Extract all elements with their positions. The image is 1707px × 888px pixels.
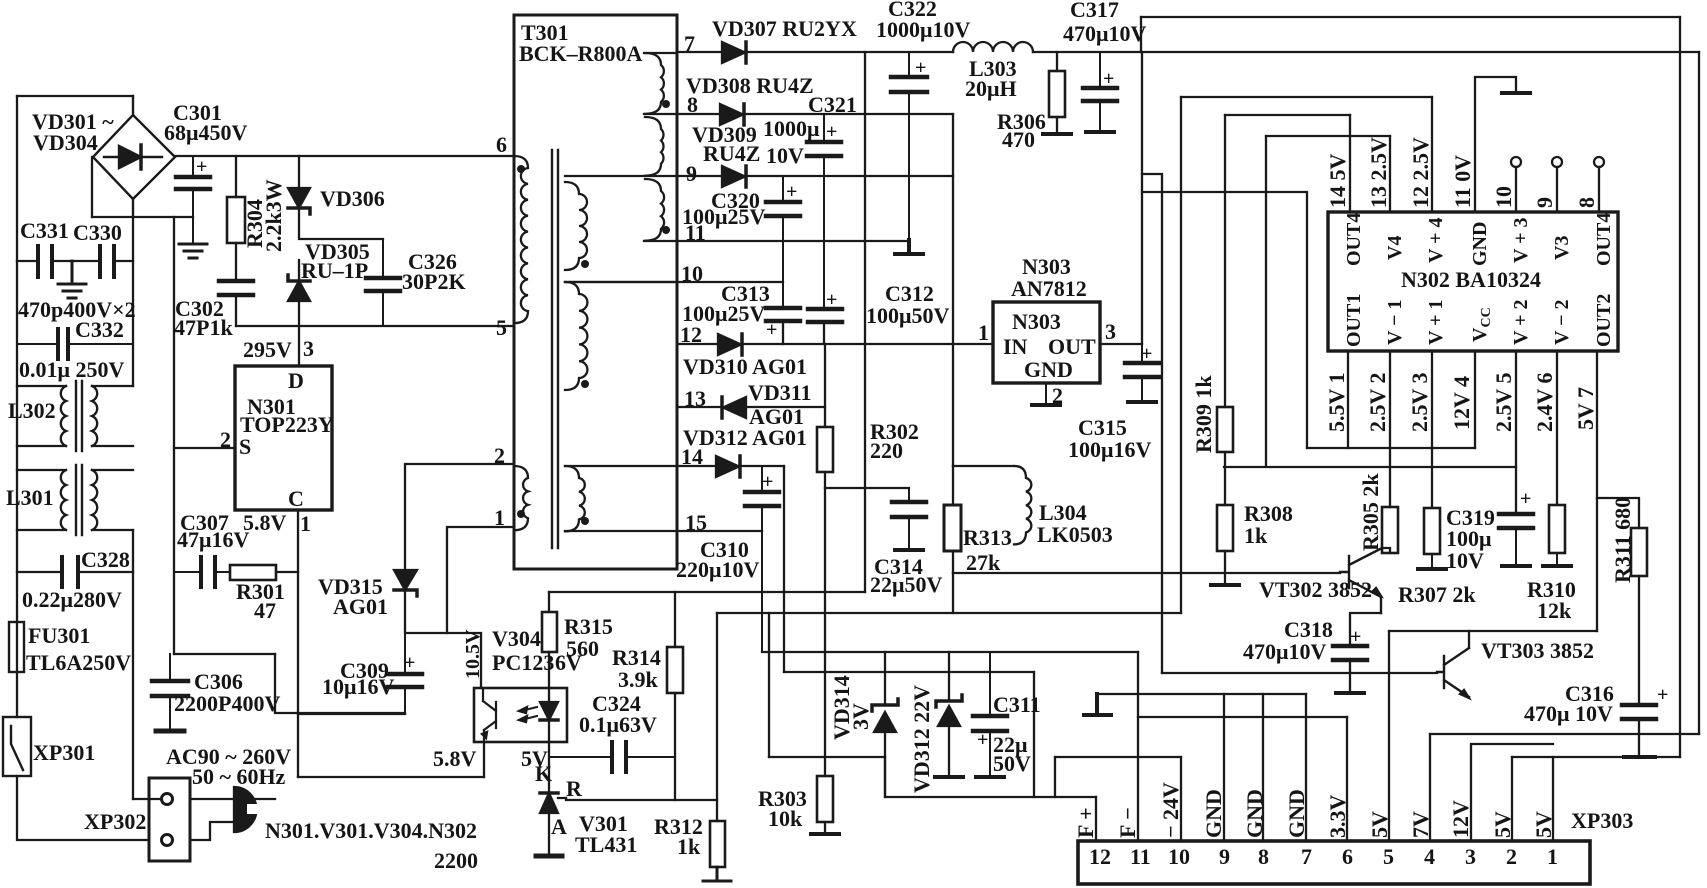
wire R315 top feed <box>548 592 550 612</box>
wire C309 bottom to C pin row <box>298 713 405 715</box>
wire N302 pin12 <box>1431 97 1433 212</box>
svg-text:1: 1 <box>300 511 311 536</box>
wire C313 bottom <box>782 321 784 344</box>
svg-text:2.5V 5: 2.5V 5 <box>1491 373 1516 433</box>
svg-text:7: 7 <box>1301 844 1312 869</box>
ground below C301 <box>179 244 207 258</box>
svg-text:VD312 22V: VD312 22V <box>909 685 934 793</box>
wire XP302 pin2 to plug <box>190 822 234 840</box>
svg-text:20μH: 20μH <box>965 76 1017 101</box>
svg-text:VD310 AG01: VD310 AG01 <box>683 354 807 379</box>
svg-text:C330: C330 <box>73 220 122 245</box>
polarity dot W5 <box>581 380 589 388</box>
svg-text:+: + <box>915 57 926 79</box>
test point N302 pin9 <box>1552 157 1562 167</box>
svg-text:3.9k: 3.9k <box>618 667 659 692</box>
svg-text:2.5V 2: 2.5V 2 <box>1365 373 1390 433</box>
svg-text:OUT: OUT <box>1048 334 1096 359</box>
svg-text:+: + <box>826 121 837 143</box>
wire primary bottom row pin5 <box>236 325 514 327</box>
svg-text:V4: V4 <box>1384 236 1406 260</box>
svg-text:3: 3 <box>303 336 314 361</box>
capacitor C307 <box>174 557 230 587</box>
T301 aux winding pins2-1 <box>514 466 528 530</box>
svg-text:VT302 3852: VT302 3852 <box>1259 577 1372 602</box>
wire pin13 feed row y=136 <box>1266 135 1390 137</box>
polarity dot W4 <box>581 260 589 268</box>
wire R311 branch <box>1597 498 1639 528</box>
C318 bottom bar <box>1336 691 1364 695</box>
wire C314 feed <box>825 487 909 489</box>
wire 3.3V node row y=757 <box>769 756 885 758</box>
IC N303 AN7812 <box>993 302 1100 383</box>
wire opto emitter to 5.8V row <box>483 742 485 777</box>
wire bridge bottom row <box>92 216 193 218</box>
wire VT303 collector to 5V row <box>1468 631 1470 648</box>
polarity dot W3 <box>662 226 670 234</box>
svg-text:15: 15 <box>685 510 707 535</box>
T301 mid winding W6 pins14-15 <box>565 466 585 531</box>
ground bar pin11 <box>1502 91 1530 95</box>
wire pin7 rail 5V <box>677 51 953 53</box>
wire N301 pin2 S <box>174 447 235 449</box>
wire R309 column <box>1224 115 1226 584</box>
svg-text:5: 5 <box>1383 844 1394 869</box>
capacitor C314 <box>892 488 926 549</box>
resistor R313 <box>952 466 954 573</box>
svg-text:1k: 1k <box>677 834 701 859</box>
fuse FU301 <box>9 622 24 672</box>
svg-text:5: 5 <box>496 315 507 340</box>
capacitor C310 <box>745 466 779 652</box>
svg-text:295V: 295V <box>243 337 292 362</box>
svg-text:+: + <box>1657 684 1668 706</box>
wire right column to XP302 pin1 <box>133 798 160 800</box>
wire N302 pin11 to gnd <box>1475 77 1516 212</box>
opto light arrows <box>521 707 537 720</box>
polarity dot W1 <box>662 100 670 108</box>
wire R314 column <box>674 592 676 800</box>
svg-text:47P1k: 47P1k <box>174 315 233 340</box>
svg-text:+: + <box>762 471 773 493</box>
polarity dot primary <box>517 165 525 173</box>
T301 mid winding W5 <box>565 282 587 390</box>
wire pin11 inside stub <box>644 240 677 242</box>
opto LED <box>540 702 558 720</box>
capacitor C331 <box>38 246 52 277</box>
wire 5V row to R314 <box>549 591 865 593</box>
svg-text:1: 1 <box>494 505 505 530</box>
wire right edge loop x=1680 <box>1679 17 1681 757</box>
wire pin8 inside stub <box>644 113 677 115</box>
test point N302 pin10 <box>1511 157 1521 167</box>
svg-text:L301: L301 <box>6 485 54 510</box>
wire VD306 column <box>298 156 300 326</box>
wire XP303 pin4 riser <box>1429 734 1431 841</box>
wire VD315 to 10.5V node <box>405 590 481 688</box>
wire 2.5V riser x=1181 <box>1180 97 1182 613</box>
left outer frame vertical wire <box>16 96 18 717</box>
svg-text:1000μ: 1000μ <box>763 116 820 141</box>
svg-text:30P2K: 30P2K <box>402 269 466 294</box>
T301 right winding W1 pins7-8 <box>645 53 664 114</box>
svg-text:VD308 RU4Z: VD308 RU4Z <box>686 73 814 98</box>
svg-text:100μ25V: 100μ25V <box>682 301 765 326</box>
svg-text:12k: 12k <box>1537 598 1572 623</box>
wire 3.3V row y=717 <box>1138 716 1347 718</box>
ground between C331/C330 <box>58 261 86 298</box>
svg-text:12V: 12V <box>1448 800 1473 838</box>
wire N302 pin5 to C319 <box>1515 351 1517 514</box>
svg-text:R: R <box>566 776 583 801</box>
wire pin14 inside stub <box>565 465 677 467</box>
svg-text:C328: C328 <box>81 547 130 572</box>
wire XP302 pin1 to plug <box>190 798 234 800</box>
svg-text:GND: GND <box>1242 789 1267 838</box>
resistor R304 <box>227 197 245 243</box>
svg-text:12 2.5V: 12 2.5V <box>1408 137 1433 208</box>
diode VD315 <box>394 570 417 590</box>
svg-text:6: 6 <box>1342 844 1353 869</box>
wire 5V drop x=865 <box>864 52 866 592</box>
svg-text:1000μ10V: 1000μ10V <box>876 17 970 42</box>
svg-text:5V: 5V <box>1367 811 1392 838</box>
svg-text:22μ50V: 22μ50V <box>870 572 942 597</box>
wire N302 pin7 5V down <box>1596 351 1598 631</box>
svg-text:470μ10V: 470μ10V <box>1063 21 1146 46</box>
resistor R314 <box>667 647 683 693</box>
wire N302 pin2 to R305 <box>1389 351 1391 507</box>
svg-text:+: + <box>766 319 777 341</box>
transistor VT303 <box>1437 648 1469 697</box>
svg-text:0.1μ63V: 0.1μ63V <box>579 712 657 737</box>
svg-text:4: 4 <box>1424 844 1435 869</box>
svg-text:TL6A250V: TL6A250V <box>26 650 131 675</box>
svg-text:68μ450V: 68μ450V <box>164 120 247 145</box>
svg-text:OUT2: OUT2 <box>1593 294 1615 347</box>
svg-text:VD311: VD311 <box>748 380 812 405</box>
svg-text:VD304: VD304 <box>33 130 98 155</box>
diode VD308 <box>720 104 743 125</box>
C316 bottom bar <box>1624 755 1655 759</box>
wire C312 bottom <box>823 322 825 344</box>
svg-text:6: 6 <box>496 132 507 157</box>
T301 mid winding W4 <box>565 182 587 270</box>
resistor R315 <box>542 612 557 652</box>
resistor R305 <box>1382 507 1398 553</box>
svg-text:10: 10 <box>1491 186 1516 208</box>
svg-text:FU301: FU301 <box>28 623 90 648</box>
svg-text:7: 7 <box>684 31 695 56</box>
wire XP303 pin5 riser <box>1388 631 1390 841</box>
wire riser from feedback row <box>768 613 770 757</box>
wire N302 pin3 to R307 <box>1431 351 1433 508</box>
svg-text:XP301: XP301 <box>33 740 95 765</box>
wire C306 jog down right <box>275 654 405 713</box>
svg-text:8: 8 <box>1258 844 1269 869</box>
wire R311 to C316 <box>1638 576 1640 705</box>
svg-text:1: 1 <box>978 320 989 345</box>
wire R313/L304 top <box>953 465 1014 467</box>
svg-text:5.5V 1: 5.5V 1 <box>1324 373 1349 433</box>
wire S-return to C306 <box>174 653 275 655</box>
wire main HV rail to T301 pin6 <box>175 155 514 157</box>
zener VD312 22V <box>948 652 950 775</box>
resistor R312 <box>710 821 725 867</box>
wire N301 pin3 drain <box>298 326 300 366</box>
capacitor C315 <box>1125 344 1159 401</box>
inductor L304 <box>1014 466 1031 544</box>
svg-text:50V: 50V <box>993 751 1031 776</box>
svg-text:560: 560 <box>566 636 599 661</box>
svg-text:V + 1: V + 1 <box>1425 300 1447 345</box>
wire pin9 rail <box>677 175 953 177</box>
wire 5.5V row y=448 <box>1307 447 1475 449</box>
wire pin10 inside stub <box>565 281 677 283</box>
svg-text:+: + <box>977 729 988 751</box>
svg-text:TOP223Y: TOP223Y <box>240 412 334 437</box>
wire -24V row to XP303 <box>1055 756 1181 758</box>
svg-text:47: 47 <box>254 598 276 623</box>
svg-text:D: D <box>288 368 304 393</box>
IC N301 TOP223Y <box>235 366 332 510</box>
wire XP303 pin8 riser GND <box>1262 694 1264 841</box>
zener VD314 <box>884 652 886 797</box>
wire -24V/F- row y=652 <box>762 651 1138 653</box>
svg-text:+: + <box>786 181 797 203</box>
resistor R308 <box>1217 505 1233 551</box>
svg-text:V − 1: V − 1 <box>1384 300 1406 345</box>
wire XP303 pin6 riser 3.3V <box>1346 717 1348 841</box>
wire XP303 pin7 riser GND <box>1305 694 1307 841</box>
opto phototransistor <box>483 688 496 742</box>
wire R312 column <box>716 613 718 821</box>
wire XP303 pin3 riser <box>1471 744 1553 841</box>
svg-text:AN7812: AN7812 <box>1011 276 1087 301</box>
capacitor C322 <box>891 52 927 240</box>
ground symbol GND row <box>1084 694 1111 715</box>
svg-text:OUT1: OUT1 <box>1343 294 1365 347</box>
svg-text:N301.V301.V304.N302: N301.V301.V304.N302 <box>265 818 477 843</box>
svg-text:10V: 10V <box>1446 548 1484 573</box>
optocoupler V304 PC123 box <box>474 688 567 742</box>
svg-text:BCK–R800A: BCK–R800A <box>519 41 643 66</box>
svg-text:K: K <box>535 761 552 786</box>
wire 12V-raw drop x=953 <box>952 114 954 466</box>
svg-text:RU4Z: RU4Z <box>703 141 760 166</box>
svg-text:C317: C317 <box>1070 0 1119 22</box>
wire right column bridge to choke <box>132 217 134 386</box>
svg-text:PC123: PC123 <box>492 650 554 675</box>
box around VD305/C326 <box>301 238 383 240</box>
svg-text:5V: 5V <box>1490 811 1515 838</box>
resistor R302 <box>817 427 833 472</box>
diode VD307 <box>722 42 745 63</box>
svg-text:5V 7: 5V 7 <box>1573 387 1598 430</box>
svg-text:9: 9 <box>1532 197 1557 208</box>
wire -24V drop x=1055 <box>1054 757 1056 797</box>
switch XP301 <box>3 717 31 776</box>
svg-text:5.8V: 5.8V <box>433 746 477 771</box>
svg-text:OUT4: OUT4 <box>1593 213 1615 266</box>
capacitor C318 <box>1333 646 1367 660</box>
resistor R307 <box>1424 508 1440 554</box>
svg-text:3: 3 <box>1465 844 1476 869</box>
svg-text:RU–1P: RU–1P <box>301 258 368 283</box>
wire C pin bottom row 5.8V <box>298 776 484 778</box>
svg-text:10: 10 <box>681 261 703 286</box>
svg-text:3V: 3V <box>848 703 873 730</box>
svg-text:+: + <box>826 289 837 311</box>
svg-text:V + 3: V + 3 <box>1510 218 1532 263</box>
svg-text:A: A <box>551 814 567 839</box>
svg-text:1: 1 <box>1547 844 1558 869</box>
svg-text:F −: F − <box>1115 807 1140 838</box>
diode VD310 <box>718 334 741 355</box>
wire 5V row y=631 <box>1389 630 1597 632</box>
wire right edge loop x=1699 <box>1698 52 1700 734</box>
svg-text:V − 2: V − 2 <box>1551 300 1573 345</box>
regulator V301 TL431 <box>540 791 558 795</box>
svg-text:0.22μ280V: 0.22μ280V <box>22 587 122 612</box>
ground bar below R307 <box>1418 554 1446 569</box>
wire XP301 to XP302 bottom <box>17 776 149 840</box>
wire aux pin1 route <box>447 527 514 633</box>
svg-text:OUT4: OUT4 <box>1343 213 1365 266</box>
wire pin10 rail <box>565 281 783 283</box>
bridge rectifier VD301~VD304 <box>93 96 175 217</box>
svg-text:27k: 27k <box>966 550 1001 575</box>
wire VT302 emitter to C318 <box>1350 613 1381 646</box>
wire pin14 rail <box>677 465 784 467</box>
svg-text:R311 680: R311 680 <box>1610 497 1635 583</box>
resistor R303 <box>824 757 826 833</box>
inductor L302 (common-mode choke upper) <box>17 381 133 451</box>
wire F+ loop bottom <box>885 757 1096 797</box>
polarity dot W6 <box>581 517 589 525</box>
wire N302 pin13 <box>1389 136 1391 212</box>
svg-text:10.5V: 10.5V <box>462 629 484 679</box>
wire top rail y=17 <box>1141 16 1680 18</box>
inductor L301 (common-mode choke lower) <box>17 465 133 535</box>
svg-text:2: 2 <box>494 443 505 468</box>
svg-text:XP302: XP302 <box>84 809 146 834</box>
svg-text:+: + <box>404 652 415 674</box>
wire C331/C330 row <box>17 260 133 262</box>
svg-text:R313: R313 <box>963 525 1012 550</box>
wire 5V out row y=757 <box>1512 756 1680 758</box>
svg-text:12: 12 <box>1089 844 1111 869</box>
wire F- drop x=1138 <box>1137 652 1139 841</box>
svg-text:XP303: XP303 <box>1571 808 1633 833</box>
wire S-return vertical <box>173 217 175 654</box>
wire pin8 rail <box>677 113 953 115</box>
wire 5V feed from pin14 x=784 <box>783 466 785 672</box>
svg-text:2200: 2200 <box>434 848 478 873</box>
T301 right winding W3 pins9-11 <box>645 179 664 241</box>
resistor R301 <box>230 565 276 580</box>
capacitor C324 <box>549 742 675 772</box>
ground below R312 <box>703 867 731 881</box>
wire L304 bottom row to VT302 base <box>953 572 1340 574</box>
svg-text:C321: C321 <box>808 92 857 117</box>
svg-text:100μ25V: 100μ25V <box>682 204 765 229</box>
svg-text:220μ10V: 220μ10V <box>676 557 759 582</box>
svg-text:V3: V3 <box>1551 236 1573 260</box>
wire pin12 feed row y=97 <box>1181 96 1432 98</box>
wire XP303 pin1 riser <box>1552 757 1554 841</box>
svg-text:LK0503: LK0503 <box>1037 522 1113 547</box>
IC N302 BA10324 box <box>1328 212 1618 351</box>
svg-text:9: 9 <box>1219 844 1230 869</box>
plug symbol <box>234 787 257 832</box>
wire 12V column x=1142 <box>1141 17 1142 344</box>
svg-text:2.4V 6: 2.4V 6 <box>1532 373 1557 433</box>
svg-text:C311: C311 <box>993 692 1041 717</box>
wire pin12 rail to N303 IN <box>677 343 993 345</box>
resistor R310 <box>1549 505 1565 553</box>
svg-text:11 0V: 11 0V <box>1450 155 1475 208</box>
transformer T301 box <box>514 15 677 569</box>
svg-text:+: + <box>1141 343 1152 365</box>
svg-text:C: C <box>288 486 304 511</box>
wire N302 pin14 <box>1349 115 1351 212</box>
polarity dot aux <box>517 510 525 518</box>
capacitor C311 <box>973 652 1007 775</box>
svg-text:13 2.5V: 13 2.5V <box>1366 137 1391 208</box>
T301 primary winding pins6-5 <box>514 156 528 323</box>
resistor R311 <box>1631 528 1647 576</box>
diode VD309 <box>722 166 745 187</box>
svg-text:1k: 1k <box>1244 523 1268 548</box>
svg-text:50 ~ 60Hz: 50 ~ 60Hz <box>192 764 286 789</box>
svg-text:VD306: VD306 <box>320 186 385 211</box>
capacitor C328 <box>17 571 133 573</box>
svg-text:+: + <box>1103 68 1114 90</box>
wire pin13 rail <box>677 406 825 408</box>
svg-text:11: 11 <box>1130 844 1151 869</box>
wire 12V branch row y=192 <box>1142 192 1307 448</box>
capacitor C320 <box>766 176 800 308</box>
capacitor C332 <box>17 343 133 345</box>
svg-text:+: + <box>1350 626 1361 648</box>
svg-text:2: 2 <box>1052 383 1063 408</box>
wire pin11 gnd rail <box>677 240 909 242</box>
svg-text:IN: IN <box>1003 334 1028 359</box>
svg-text:GND: GND <box>1469 222 1491 266</box>
diode VD312 <box>716 456 739 477</box>
svg-text:14 5V: 14 5V <box>1325 154 1350 209</box>
wire 12V rail y=51 right <box>1141 51 1699 53</box>
svg-text:2.5V 3: 2.5V 3 <box>1407 373 1432 433</box>
svg-text:9: 9 <box>686 161 697 186</box>
wire N301 pin1 C column <box>297 510 299 777</box>
svg-text:10k: 10k <box>768 806 803 831</box>
wire N302 pin6 to R310 <box>1556 351 1558 505</box>
svg-text:47μ16V: 47μ16V <box>177 527 249 552</box>
svg-text:2: 2 <box>1506 844 1517 869</box>
svg-text:2: 2 <box>220 427 231 452</box>
wire N303 OUT pin3 <box>1100 343 1142 345</box>
svg-text:5V: 5V <box>1531 811 1556 838</box>
svg-text:100μ16V: 100μ16V <box>1068 437 1151 462</box>
wire VT302 collector to R305 <box>1382 548 1390 553</box>
ground bar below R308 <box>1211 583 1239 587</box>
resistor R309 <box>1217 407 1233 452</box>
svg-text:2200P400V: 2200P400V <box>174 691 280 716</box>
svg-text:F +: F + <box>1073 807 1098 838</box>
svg-text:2.2k3W: 2.2k3W <box>261 179 286 252</box>
